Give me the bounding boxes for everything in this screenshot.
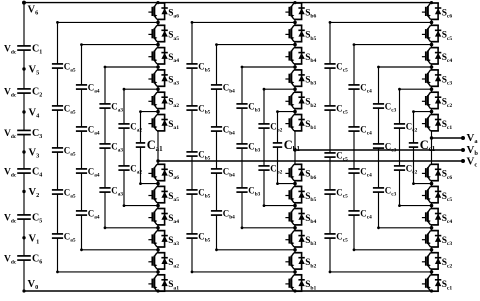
- svg-text:Sa2: Sa2: [168, 258, 179, 269]
- svg-text:Cc4: Cc4: [360, 208, 372, 220]
- svg-text:V5: V5: [29, 65, 40, 77]
- svg-text:C5: C5: [32, 213, 42, 225]
- svg-text:Sc1: Sc1: [442, 120, 453, 131]
- svg-text:Sc5: Sc5: [442, 192, 453, 203]
- svg-text:Sb3: Sb3: [305, 75, 316, 86]
- svg-text:Cb5: Cb5: [198, 231, 210, 243]
- svg-text:Cc2: Cc2: [406, 121, 418, 133]
- svg-text:Cc4: Cc4: [360, 166, 372, 178]
- svg-text:Ca4: Ca4: [88, 208, 100, 220]
- svg-text:Vdc: Vdc: [4, 44, 17, 55]
- svg-text:Cc1: Cc1: [420, 138, 436, 153]
- svg-text:Vdc: Vdc: [4, 167, 17, 178]
- svg-text:Cb5: Cb5: [198, 149, 210, 161]
- svg-text:Sa4: Sa4: [168, 214, 179, 225]
- svg-text:V0: V0: [28, 279, 39, 291]
- svg-text:Ca1: Ca1: [147, 138, 163, 153]
- svg-text:C1: C1: [32, 44, 42, 56]
- svg-text:Cc2: Cc2: [406, 163, 418, 175]
- svg-text:Sa1: Sa1: [168, 280, 179, 291]
- svg-text:Sb3: Sb3: [305, 236, 316, 247]
- svg-text:Cb1: Cb1: [284, 138, 301, 153]
- svg-text:Cc5: Cc5: [336, 231, 348, 243]
- svg-text:Cc4: Cc4: [360, 82, 372, 94]
- svg-text:C4: C4: [32, 167, 42, 179]
- svg-text:Sc4: Sc4: [442, 214, 453, 225]
- svg-text:Sa6: Sa6: [168, 170, 179, 181]
- svg-text:Vdc: Vdc: [4, 254, 17, 265]
- svg-text:Cb4: Cb4: [223, 166, 235, 178]
- svg-text:Sb1: Sb1: [305, 120, 316, 131]
- svg-text:Cc3: Cc3: [385, 101, 397, 113]
- svg-text:Ca5: Ca5: [64, 103, 76, 115]
- svg-text:Cc5: Cc5: [336, 103, 348, 115]
- svg-text:Ca3: Ca3: [111, 185, 123, 197]
- svg-text:Sc4: Sc4: [442, 53, 453, 64]
- svg-text:Cb5: Cb5: [198, 187, 210, 199]
- svg-text:Sc6: Sc6: [442, 170, 453, 181]
- svg-text:Sa5: Sa5: [168, 31, 179, 42]
- svg-text:Ca5: Ca5: [64, 231, 76, 243]
- svg-text:Ca4: Ca4: [88, 166, 100, 178]
- svg-text:Cb5: Cb5: [198, 61, 210, 73]
- svg-text:V1: V1: [29, 233, 40, 245]
- svg-text:Cc5: Cc5: [336, 187, 348, 199]
- svg-text:C6: C6: [32, 254, 42, 266]
- svg-text:Sb4: Sb4: [305, 214, 316, 225]
- svg-text:Cb3: Cb3: [248, 101, 260, 113]
- svg-text:C2: C2: [32, 87, 42, 99]
- svg-text:Cb2: Cb2: [270, 121, 282, 133]
- svg-text:Sc3: Sc3: [442, 75, 453, 86]
- svg-text:Ca5: Ca5: [64, 145, 76, 157]
- svg-text:Vdc: Vdc: [4, 213, 17, 224]
- svg-text:Vc: Vc: [467, 156, 478, 169]
- svg-text:Sc1: Sc1: [442, 280, 453, 291]
- svg-text:Cb3: Cb3: [248, 185, 260, 197]
- svg-text:Sc2: Sc2: [442, 98, 453, 109]
- svg-text:Sb4: Sb4: [305, 53, 316, 64]
- svg-text:Sb5: Sb5: [305, 31, 316, 42]
- svg-text:Cb3: Cb3: [248, 141, 260, 153]
- svg-text:Cc4: Cc4: [360, 124, 372, 136]
- svg-text:Cc3: Cc3: [385, 141, 397, 153]
- svg-text:Sb2: Sb2: [305, 98, 316, 109]
- svg-text:Ca4: Ca4: [88, 82, 100, 94]
- svg-text:Cb4: Cb4: [223, 82, 235, 94]
- svg-text:Ca5: Ca5: [64, 187, 76, 199]
- svg-text:Sb2: Sb2: [305, 258, 316, 269]
- svg-text:V4: V4: [29, 108, 41, 120]
- svg-text:Sc3: Sc3: [442, 236, 453, 247]
- svg-text:Cb4: Cb4: [223, 208, 235, 220]
- svg-text:V6: V6: [28, 5, 39, 17]
- svg-text:Sa1: Sa1: [168, 120, 179, 131]
- svg-text:Sa3: Sa3: [168, 75, 179, 86]
- svg-text:Vdc: Vdc: [4, 87, 17, 98]
- svg-text:V3: V3: [29, 148, 40, 160]
- svg-text:Sc2: Sc2: [442, 258, 453, 269]
- svg-text:V2: V2: [29, 187, 40, 199]
- svg-text:Vdc: Vdc: [4, 129, 17, 140]
- svg-text:Sa6: Sa6: [168, 8, 179, 19]
- svg-text:Sb6: Sb6: [305, 8, 316, 19]
- svg-text:Sa2: Sa2: [168, 98, 179, 109]
- svg-text:Cb5: Cb5: [198, 103, 210, 115]
- svg-text:Ca3: Ca3: [111, 141, 123, 153]
- svg-text:Sc6: Sc6: [442, 8, 453, 19]
- svg-text:Sb5: Sb5: [305, 192, 316, 203]
- svg-text:Ca3: Ca3: [111, 101, 123, 113]
- svg-text:Sa3: Sa3: [168, 236, 179, 247]
- svg-text:Sa5: Sa5: [168, 192, 179, 203]
- svg-text:Sb1: Sb1: [305, 280, 316, 291]
- svg-text:Sa4: Sa4: [168, 53, 179, 64]
- svg-text:Cc5: Cc5: [336, 61, 348, 73]
- svg-text:Sc5: Sc5: [442, 31, 453, 42]
- svg-text:Ca4: Ca4: [88, 124, 100, 136]
- svg-text:Ca5: Ca5: [64, 61, 76, 73]
- svg-text:C3: C3: [32, 128, 42, 140]
- svg-text:Cb2: Cb2: [270, 163, 282, 175]
- svg-text:Cc3: Cc3: [385, 185, 397, 197]
- svg-text:Sb6: Sb6: [305, 170, 316, 181]
- svg-text:Cb4: Cb4: [223, 124, 235, 136]
